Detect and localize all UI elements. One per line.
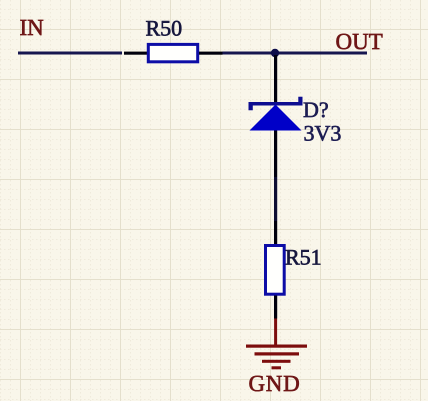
resistor R51 pin 2 (bottom, black) [274,296,277,319]
zener diode D? anode triangle [250,105,302,131]
resistor R50 pin 2 (right, black) [199,52,223,55]
label R51 [285,245,322,270]
label R50 [146,15,183,40]
svg-text:3V3: 3V3 [304,121,342,146]
diode D? pin 1 (cathode, black) [274,55,277,102]
label D? [303,97,329,122]
wire IN to R50 [18,52,122,55]
svg-text:OUT: OUT [336,29,383,54]
wire R50 to OUT [223,52,368,55]
ground stem [274,319,277,346]
svg-text:GND: GND [249,371,301,396]
diode D? pin 2 (anode, black) [274,131,277,178]
ground bar 1 [246,345,307,348]
zener diode D? cathode bar with bent ends [249,97,303,110]
ground bar 4 [272,366,282,369]
resistor R51 pin 1 (top, black) [274,221,277,244]
resistor R50 [148,44,197,61]
net label GND [249,371,301,396]
resistor R51 [266,246,285,295]
ground bar 3 [262,360,291,363]
svg-text:IN: IN [20,15,45,40]
svg-text:R50: R50 [146,15,183,40]
svg-text:D?: D? [303,97,329,122]
junction node [271,49,279,57]
net label IN [20,15,45,40]
svg-text:R51: R51 [285,245,322,270]
ground bar 2 [255,352,300,355]
label 3V3 [304,121,342,146]
resistor R50 pin 1 (left, black) [124,52,148,55]
net label OUT [336,29,383,54]
wire diode to R51 [274,177,277,221]
